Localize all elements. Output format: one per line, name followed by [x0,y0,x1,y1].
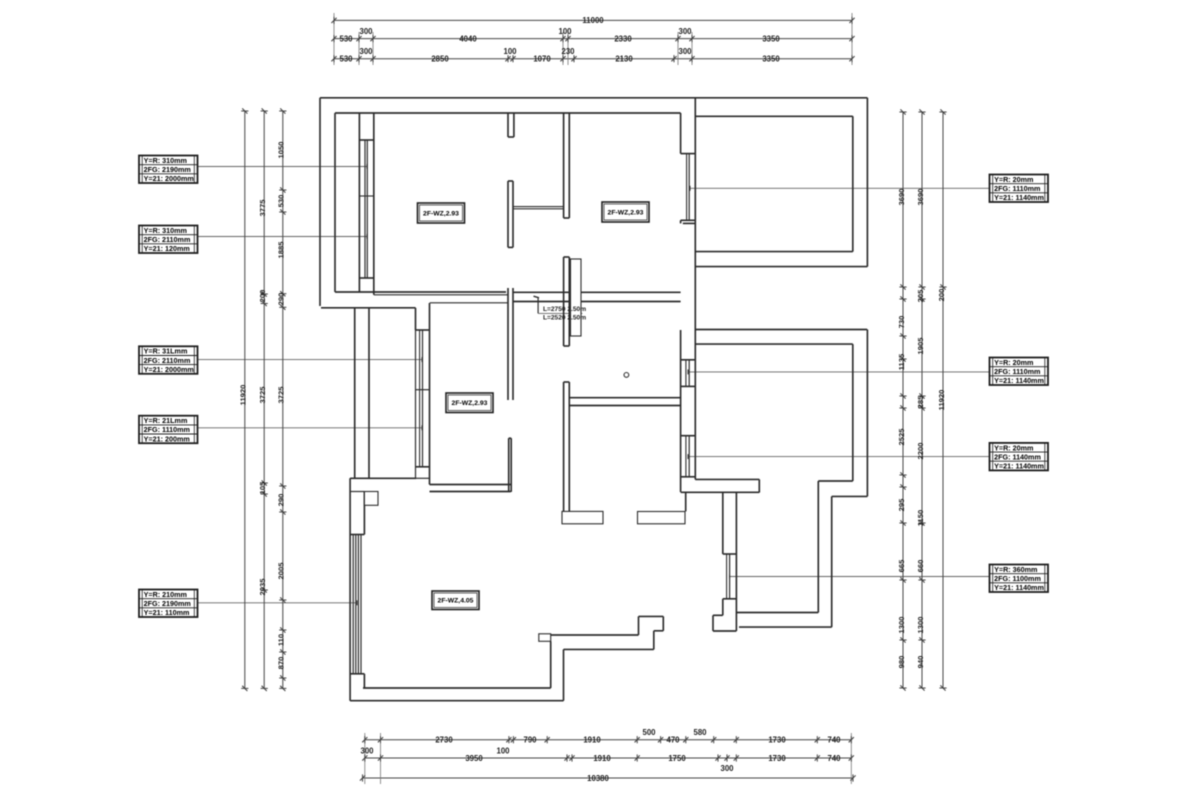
svg-text:285: 285 [916,395,925,408]
svg-text:500: 500 [642,728,656,737]
svg-text:Y=R: 310mm: Y=R: 310mm [144,156,187,165]
svg-text:530: 530 [277,195,286,208]
svg-text:Y=R: 20mm: Y=R: 20mm [994,443,1033,452]
svg-text:665: 665 [897,559,906,572]
svg-text:1750: 1750 [668,754,686,763]
svg-text:110: 110 [277,634,286,646]
svg-text:730: 730 [897,316,906,329]
svg-text:3775: 3775 [258,199,267,217]
svg-text:100: 100 [503,47,517,56]
svg-text:3690: 3690 [916,189,925,206]
svg-text:L=2520 2.50m: L=2520 2.50m [543,315,586,322]
svg-text:295: 295 [897,498,906,511]
svg-text:1300: 1300 [897,617,906,634]
svg-text:2200: 2200 [916,443,925,460]
svg-text:100: 100 [496,747,510,756]
svg-text:1730: 1730 [768,754,786,763]
svg-text:300: 300 [678,47,692,56]
svg-text:2005: 2005 [277,562,286,580]
svg-text:2FG: 1110mm: 2FG: 1110mm [994,367,1040,376]
svg-text:11000: 11000 [582,16,604,25]
svg-text:1885: 1885 [277,241,286,259]
svg-text:1070: 1070 [533,55,551,64]
svg-text:740: 740 [827,754,841,763]
svg-text:2FG: 2190mm: 2FG: 2190mm [144,599,191,608]
svg-text:2F-WZ,4.05: 2F-WZ,4.05 [438,598,474,605]
svg-text:870: 870 [277,657,286,670]
svg-text:Y=R: 20mm: Y=R: 20mm [994,358,1033,367]
svg-text:1150: 1150 [916,510,925,526]
svg-text:1730: 1730 [768,736,786,745]
svg-text:Y=R: 20mm: Y=R: 20mm [994,175,1033,184]
svg-text:2F-WZ,2.93: 2F-WZ,2.93 [423,210,459,217]
svg-text:1135: 1135 [897,353,906,370]
svg-text:470: 470 [666,736,680,745]
svg-text:740: 740 [827,736,841,745]
svg-text:Y=21: 1140mm: Y=21: 1140mm [994,193,1044,202]
svg-text:2330: 2330 [614,34,632,43]
svg-text:3950: 3950 [465,754,483,763]
svg-text:1300: 1300 [916,617,925,634]
svg-text:300: 300 [678,27,692,36]
svg-text:1910: 1910 [583,736,601,745]
svg-text:Y=R: 310mm: Y=R: 310mm [144,226,187,235]
svg-text:Y=21: 200mm: Y=21: 200mm [144,434,190,443]
svg-text:2F-WZ,2.93: 2F-WZ,2.93 [608,209,644,216]
svg-text:1050: 1050 [277,142,286,159]
svg-text:Y=R: 21Lmm: Y=R: 21Lmm [144,416,188,425]
svg-text:3690: 3690 [897,189,906,206]
svg-text:290: 290 [277,293,286,306]
svg-text:230: 230 [561,47,575,56]
svg-text:100: 100 [558,27,572,36]
svg-text:11920: 11920 [937,390,946,411]
svg-text:2FG: 1110mm: 2FG: 1110mm [144,425,190,434]
svg-text:2FG: 2110mm: 2FG: 2110mm [144,235,191,244]
svg-text:4040: 4040 [459,34,477,43]
svg-text:2730: 2730 [435,736,453,745]
svg-text:1910: 1910 [593,754,611,763]
svg-text:2FG: 2190mm: 2FG: 2190mm [144,165,191,174]
svg-text:790: 790 [523,736,537,745]
svg-text:300: 300 [360,747,374,756]
svg-text:300: 300 [359,27,373,36]
svg-text:300: 300 [720,764,734,773]
svg-text:Y=21: 2000mm: Y=21: 2000mm [144,365,194,374]
svg-text:530: 530 [339,34,353,43]
svg-text:Y=R: 31Lmm: Y=R: 31Lmm [144,347,188,356]
svg-text:1905: 1905 [916,337,925,355]
svg-text:2FG: 2110mm: 2FG: 2110mm [144,356,191,365]
svg-text:Y=21: 110mm: Y=21: 110mm [144,608,190,617]
svg-text:3350: 3350 [762,34,780,43]
svg-text:205: 205 [916,289,925,302]
svg-text:2130: 2130 [615,55,633,64]
svg-text:Y=21: 1140mm: Y=21: 1140mm [994,462,1044,471]
svg-text:Y=21: 2000mm: Y=21: 2000mm [144,174,194,183]
svg-text:2FG: 1140mm: 2FG: 1140mm [994,452,1041,461]
svg-text:Y=21: 1140mm: Y=21: 1140mm [994,583,1044,592]
svg-text:2850: 2850 [431,55,449,64]
svg-text:980: 980 [897,656,906,669]
svg-text:3725: 3725 [258,386,267,404]
svg-text:3725: 3725 [277,386,286,404]
svg-text:10380: 10380 [587,774,609,783]
svg-text:3350: 3350 [762,55,780,64]
svg-text:2F-WZ,2.93: 2F-WZ,2.93 [452,400,488,407]
svg-text:Y=21: 1140mm: Y=21: 1140mm [994,376,1044,385]
svg-text:290: 290 [277,494,286,507]
svg-text:200: 200 [937,289,946,302]
svg-text:2035: 2035 [258,578,267,596]
svg-text:Y=21: 120mm: Y=21: 120mm [144,244,190,253]
svg-text:105: 105 [258,481,267,494]
svg-text:300: 300 [359,47,373,56]
svg-text:11920: 11920 [239,385,248,406]
svg-text:Y=R: 210mm: Y=R: 210mm [144,590,187,599]
svg-text:2525: 2525 [897,428,906,446]
svg-text:2FG: 1110mm: 2FG: 1110mm [994,184,1040,193]
svg-text:580: 580 [693,728,707,737]
svg-text:940: 940 [916,656,925,669]
svg-text:660: 660 [916,560,925,573]
svg-text:530: 530 [339,55,353,64]
svg-text:2FG: 1100mm: 2FG: 1100mm [994,574,1041,583]
svg-text:L=2750 2.50m: L=2750 2.50m [543,306,586,313]
svg-text:Y=R: 360mm: Y=R: 360mm [994,565,1037,574]
svg-text:200: 200 [258,290,267,303]
